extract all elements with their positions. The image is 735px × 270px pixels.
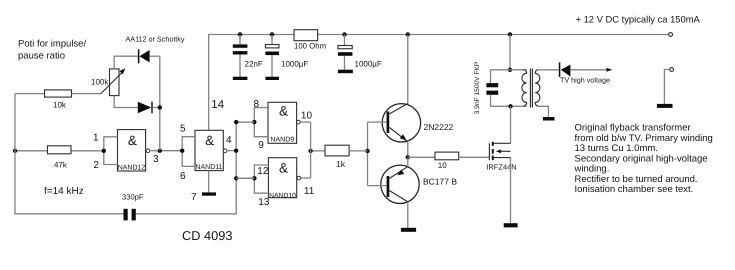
svg-text:IRFZ44N: IRFZ44N — [486, 162, 516, 171]
svg-text:+ 12 V DC typically ca 150mA: + 12 V DC typically ca 150mA — [576, 13, 701, 24]
svg-text:AA112 or Schottky: AA112 or Schottky — [126, 35, 185, 44]
junction dot rail/22nF — [238, 32, 242, 36]
junction dot bases — [365, 149, 369, 153]
wire: secondary top — [539, 69, 559, 71]
transistor Q1 2N2222 (NPN) — [382, 104, 453, 143]
wire: Q2 emitter up — [407, 157, 409, 166]
ground: 22nF — [233, 77, 248, 80]
junction dot rail/2N2222 collector — [406, 32, 410, 36]
gate U1A NAND12 — [71, 130, 160, 172]
wire: HV terminal to ground — [664, 70, 669, 104]
gate U1B NAND11 — [160, 124, 236, 182]
svg-text:2N2222: 2N2222 — [424, 122, 454, 132]
wire: collector feed 2N2222 — [407, 35, 409, 104]
note text block — [574, 123, 713, 196]
svg-text:9: 9 — [258, 140, 264, 151]
svg-text:22nF: 22nF — [245, 60, 263, 69]
ground: secondary — [543, 117, 555, 121]
junction dot feedback NAND10 — [234, 176, 238, 180]
svg-text:pause ratio: pause ratio — [18, 51, 65, 62]
svg-text:2: 2 — [93, 160, 99, 171]
transistor Q3 IRFZ44N (MOSFET) — [486, 142, 516, 171]
wire: NAND11 pin7 — [208, 171, 210, 193]
transistor Q2 BC177 B (PNP) — [381, 165, 458, 203]
svg-text:NAND9: NAND9 — [270, 136, 294, 143]
svg-text:3.9nF 1500V FKP: 3.9nF 1500V FKP — [474, 61, 481, 114]
svg-text:CD 4093: CD 4093 — [182, 228, 233, 243]
wire: pot top to upper diode — [114, 56, 138, 69]
capacitor 22nF — [233, 35, 263, 77]
ground: 1000uF #1 — [265, 77, 279, 80]
diode D1 AA112 (upper) — [138, 49, 160, 63]
wire: primary bottom — [491, 105, 527, 107]
wire: feedback bottom rail — [136, 122, 255, 214]
wire: Q3 source down — [510, 158, 512, 224]
svg-text:10: 10 — [438, 161, 447, 170]
transformer T1 secondary winding — [535, 70, 540, 106]
svg-text:1000µF: 1000µF — [355, 60, 382, 69]
junction dot rail/1000uF#1 — [270, 32, 274, 36]
wire: Q2 base — [368, 185, 387, 187]
svg-text:4: 4 — [226, 135, 232, 146]
wire: feedback to NAND10 inputs — [236, 177, 254, 179]
transformer T1 core — [529, 69, 531, 108]
svg-text:12: 12 — [257, 166, 269, 177]
junction dot 1k left — [308, 149, 312, 153]
svg-text:330pF: 330pF — [122, 193, 144, 202]
resistor R 47k — [15, 146, 71, 170]
ground: pin 7 — [202, 192, 216, 195]
svg-text:NAND12: NAND12 — [118, 164, 146, 171]
svg-text:Poti for impulse/: Poti for impulse/ — [18, 39, 86, 50]
svg-text:f=14 kHz: f=14 kHz — [44, 186, 84, 197]
potentiometer 100k — [91, 68, 125, 95]
svg-text:13: 13 — [258, 197, 270, 208]
node: HV output terminal — [670, 68, 674, 72]
svg-text:1000µF: 1000µF — [281, 60, 308, 69]
svg-text:47k: 47k — [54, 161, 68, 170]
junction dot feedback mid — [234, 149, 238, 153]
node: +12V supply terminal — [669, 33, 673, 37]
wire: secondary bottom return — [537, 106, 548, 117]
ground: 1000uF #2 — [338, 70, 353, 74]
resistor R 10 (gate) — [408, 152, 490, 170]
junction dot emitters — [406, 155, 410, 159]
svg-text:&: & — [128, 133, 137, 148]
junction dot rail/1000uF#2 — [342, 32, 346, 36]
svg-text:TV high voltage: TV high voltage — [560, 76, 610, 85]
svg-text:&: & — [279, 160, 288, 175]
ground: HV terminal — [657, 104, 673, 108]
svg-text:Ionisation chamber see text.: Ionisation chamber see text. — [575, 184, 694, 195]
wire: diodes to NAND12 output — [159, 56, 161, 151]
wire: left rail — [15, 94, 124, 214]
svg-text:BC177 B: BC177 B — [423, 177, 457, 187]
wire: bases tie vertical — [367, 122, 369, 186]
svg-text:3: 3 — [153, 154, 159, 165]
svg-text:7: 7 — [191, 192, 197, 203]
ground: Q3 source — [504, 223, 518, 227]
svg-text:10: 10 — [301, 110, 313, 121]
svg-text:8: 8 — [254, 99, 260, 110]
svg-text:5: 5 — [180, 124, 186, 135]
svg-text:1: 1 — [93, 132, 99, 143]
svg-text:1k: 1k — [336, 159, 346, 169]
wire: drain feed — [510, 106, 512, 143]
junction dot NAND12 out / diodes — [158, 149, 162, 153]
svg-text:14: 14 — [211, 99, 224, 111]
resistor R 1k — [311, 145, 368, 169]
wire: pot bottom to lower diode — [114, 96, 138, 108]
wire: NAND9/NAND10 outputs tie — [310, 122, 312, 178]
resistor R 10k — [15, 90, 101, 109]
wire: Q2 collector down — [407, 202, 409, 228]
wire: primary top — [491, 69, 527, 71]
wire: +12V top rail — [209, 35, 669, 131]
svg-text:NAND11: NAND11 — [195, 164, 222, 171]
wire: Q1 emitter down — [407, 142, 409, 157]
svg-text:&: & — [205, 133, 214, 148]
ground: Q2 collector — [401, 228, 416, 232]
capacitor C 1000uF #1 (electrolytic) — [265, 35, 308, 77]
diode D2 AA112 (lower) — [138, 102, 160, 114]
svg-text:100k: 100k — [91, 77, 109, 86]
junction dot rail/flyback — [508, 32, 512, 36]
wire: Q1 base — [368, 121, 387, 123]
gate U1C NAND10 — [236, 158, 315, 208]
svg-text:NAND10: NAND10 — [269, 192, 296, 199]
transformer T1 flyback primary winding — [522, 70, 527, 106]
svg-text:6: 6 — [180, 171, 186, 182]
capacitor C 1000uF #2 (electrolytic) — [338, 35, 382, 70]
capacitor 330pF — [122, 193, 144, 221]
capacitor 3.9nF 1500V FKP — [474, 61, 498, 114]
svg-text:11: 11 — [304, 186, 315, 197]
junction dot primary top — [508, 68, 512, 72]
svg-text:100 Ohm: 100 Ohm — [294, 42, 326, 51]
gate U1D NAND9 — [236, 99, 312, 151]
resistor 100 Ohm — [294, 30, 326, 51]
svg-text:&: & — [279, 104, 288, 119]
wire: flyback primary feed — [509, 35, 511, 70]
svg-text:10k: 10k — [53, 100, 67, 109]
junction dot feedback top — [234, 120, 238, 124]
junction dot left rail/47k — [13, 149, 17, 153]
junction dot primary bottom — [508, 104, 512, 108]
diode D3 TV high voltage rectifier — [559, 62, 613, 84]
junction dot lower diode — [158, 105, 162, 109]
